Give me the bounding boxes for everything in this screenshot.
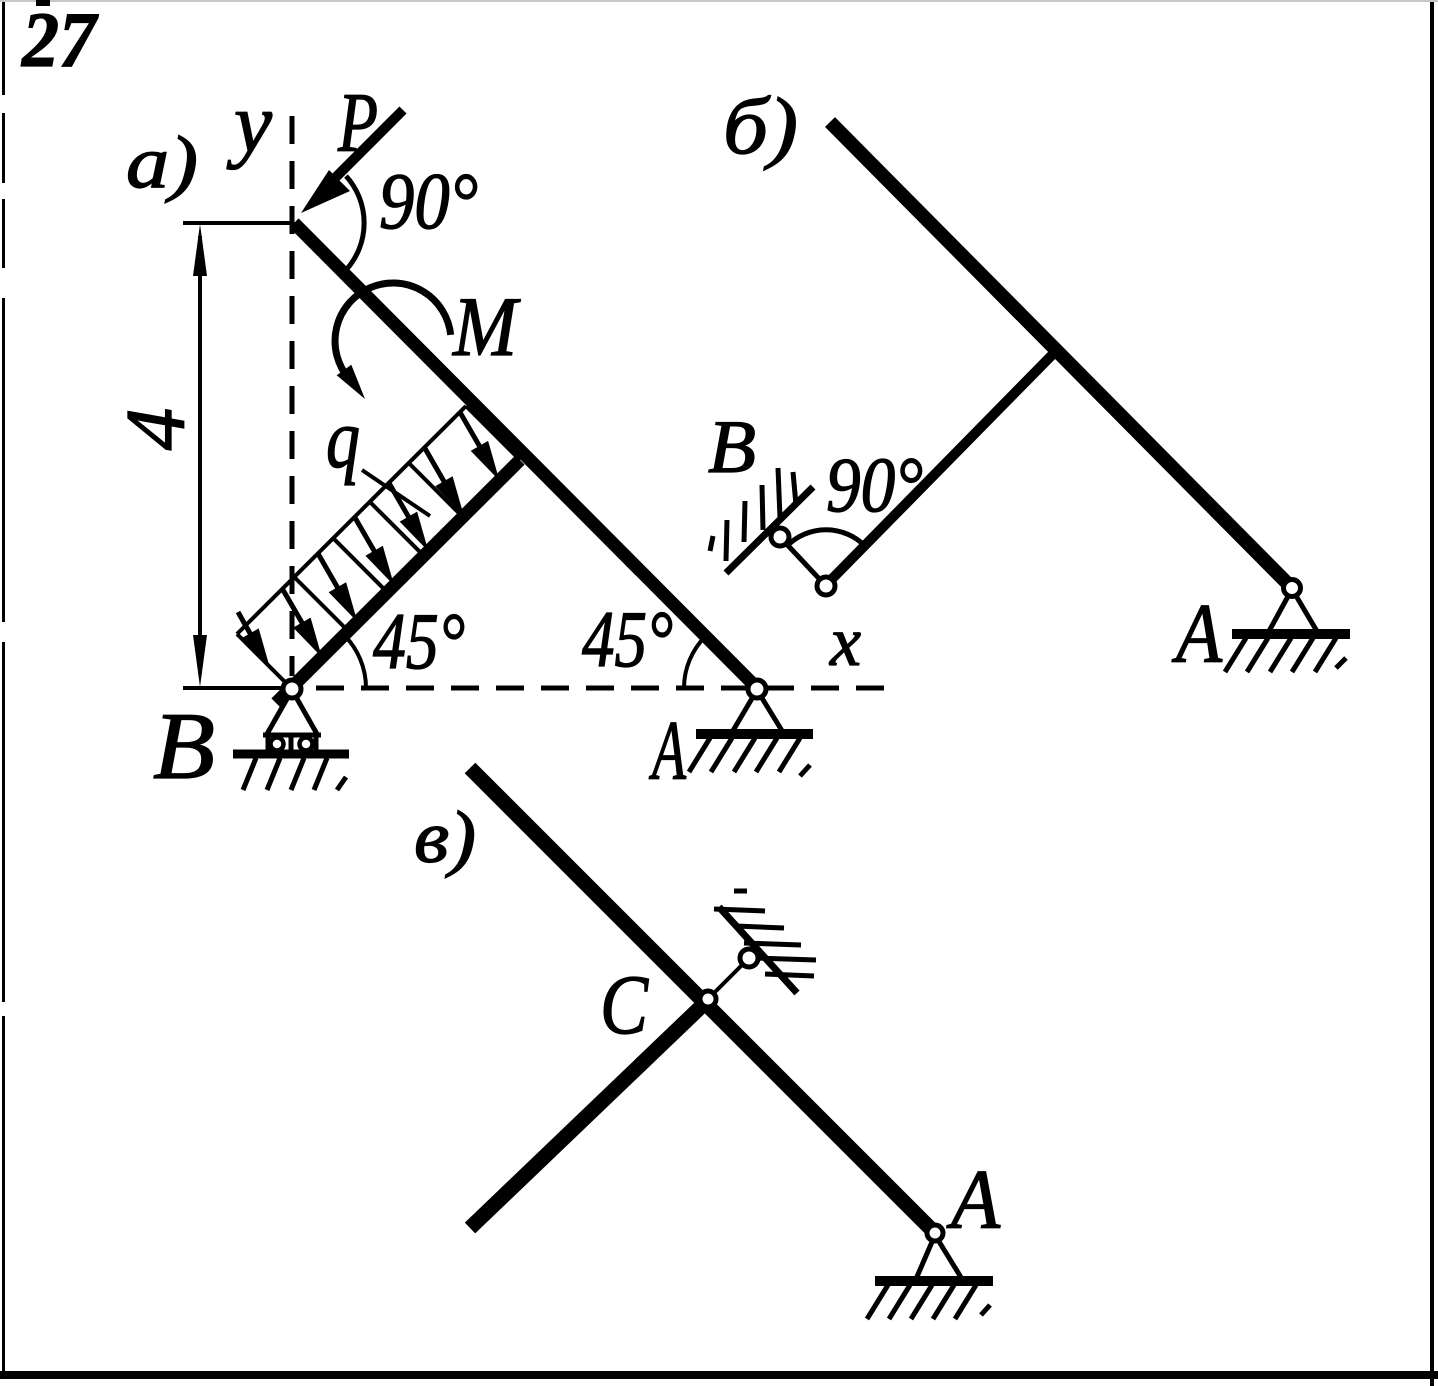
support A v: triangle [916,1235,962,1279]
link B pendulum [780,537,826,586]
svg-text:a): a) [126,122,198,204]
svg-text:A: A [946,1153,1001,1247]
bar v main [470,768,935,1233]
support B roller stubs [266,735,271,752]
distributed load q outer line [237,406,466,634]
load arrow 4 [355,518,377,556]
support B roller: triangle [267,690,317,734]
bar BJ (lower inclined bar) [276,460,520,703]
support A b: triangle [1268,589,1318,633]
support A b hatching [1225,638,1246,672]
wall hatches at C [734,889,747,894]
load band divider 1 [294,577,348,631]
svg-text:45°: 45° [582,596,673,684]
pin circle B [283,680,301,698]
left border breaks [0,95,7,113]
page frame: bottom border [0,1371,1438,1379]
wall hatches at B [726,520,727,561]
y axis (dashed) [290,116,295,676]
support B rollers [271,738,284,751]
svg-text:б): б) [723,83,798,171]
svg-text:P: P [337,76,378,170]
45 deg arc right [684,636,705,688]
svg-text:B: B [708,406,756,489]
pin circle A v [927,1225,943,1241]
pin circle wall C [740,949,758,967]
svg-text:C: C [600,958,649,1052]
svg-text:4: 4 [109,408,203,451]
load band end line top [466,406,520,460]
90 deg arc at T [346,176,364,270]
pin circle strut B [817,577,835,595]
load band divider 2 [333,538,387,592]
support B ground [233,750,349,759]
support A ground [696,729,813,739]
top reference line [183,221,294,225]
page frame: left border [2,0,5,1378]
90 deg arc b [787,530,865,546]
load band end line bottom [237,634,291,688]
load arrow 3 [318,554,340,592]
q pointer line [362,470,430,516]
pin circle wall B [771,528,789,546]
svg-text:B: B [153,693,215,799]
wall line at B [726,487,813,573]
x axis (dashed) [316,686,893,691]
support A v ground [875,1276,993,1286]
svg-text:M: M [452,280,521,374]
bottom reference line [183,686,292,690]
load band divider 4 [409,463,463,517]
svg-text:45°: 45° [373,598,465,686]
load arrow 1 [238,612,253,639]
support A b ground [1232,629,1350,639]
wall line at C [719,907,797,993]
support A v hatching [867,1285,888,1319]
force P arrow [319,110,403,194]
support A hatching [689,738,710,772]
svg-text:x: x [829,604,861,681]
pin circle A b [1284,580,1301,597]
load band divider 3 [370,502,424,556]
pin circle C [700,991,716,1007]
top edge mark [36,0,50,6]
strut b [826,353,1054,585]
moment M arrowhead [337,365,365,399]
load arrow 2 [283,590,305,628]
load arrow 5 [389,484,411,522]
dimension line 4 [198,236,202,674]
svg-text:в): в) [414,797,476,879]
svg-text:90°: 90° [379,158,478,246]
bar TA (main inclined bar) [294,223,757,688]
svg-text:27: 27 [21,0,99,83]
bar v second [470,1000,708,1228]
svg-text:q: q [326,392,360,486]
45 deg arc left [344,635,366,688]
svg-text:90°: 90° [826,441,923,528]
support B hatching [243,758,256,790]
load arrow 6 [425,448,447,486]
page frame: top faint border [0,0,1438,2]
load arrow 7 [460,413,482,451]
svg-text:A: A [649,704,687,798]
pin circle A [748,680,766,698]
link C to wall [708,958,749,999]
support A pinned: triangle [731,690,784,734]
moment M arc [335,283,451,378]
page frame: right border [1430,0,1434,1386]
svg-text:A: A [1172,587,1223,681]
bar b main [830,122,1291,587]
